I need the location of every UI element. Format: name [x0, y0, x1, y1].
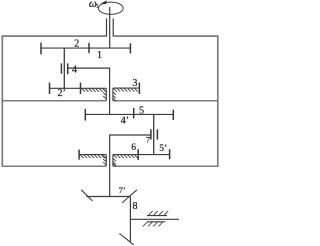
carrier 7 right tick	[156, 129, 158, 139]
bevel gear 7' left cone stroke	[81, 190, 92, 201]
input shaft bearing sleeve left	[106, 18, 108, 36]
input shaft bearing sleeve right	[112, 18, 114, 36]
svg-text:4: 4	[72, 64, 77, 75]
gear 2' left tick	[49, 83, 51, 94]
gear line 4'-5	[85, 113, 173, 115]
shaft 5	[153, 114, 155, 154]
fixed ring gear 6 left end tick	[78, 150, 80, 160]
lower guide support	[143, 222, 165, 227]
mesh tick gears 4'-5	[133, 108, 135, 119]
fixed ring gear 6 right hatching	[113, 155, 138, 167]
ring gear 3 end tick	[138, 83, 140, 94]
mesh tick gears 2'-3	[80, 83, 82, 94]
svg-text:8: 8	[133, 201, 138, 212]
fixed ring gear 3 right hatching	[113, 88, 138, 101]
output rod	[130, 218, 179, 220]
svg-text:6: 6	[131, 143, 136, 153]
shaft 8	[129, 197, 131, 242]
bevel gear 7' line	[86, 196, 130, 198]
svg-text:2’: 2’	[58, 88, 66, 99]
fixed ring gear 3 left hatching	[82, 89, 107, 100]
svg-text:3: 3	[132, 78, 137, 89]
svg-text:2: 2	[74, 39, 79, 50]
svg-text:4’: 4’	[121, 115, 129, 126]
shaft 2	[63, 48, 65, 88]
frame left edge	[1, 35, 3, 167]
carrier 7 arm	[110, 135, 151, 197]
mesh tick gears 1-2	[88, 43, 90, 53]
gear 2' line	[50, 87, 107, 89]
fixed ring gear 3 left inner edge	[105, 88, 107, 101]
frame middle wall	[2, 100, 218, 102]
svg-text:7’: 7’	[119, 185, 126, 195]
fixed ring gear 3 right line	[113, 87, 139, 89]
frame bottom edge	[2, 165, 218, 167]
svg-text:1: 1	[97, 50, 102, 61]
gear 1 right tick	[129, 43, 131, 53]
mesh tick gears 6-5'	[137, 149, 139, 160]
carrier 4 left tick	[60, 63, 62, 73]
fixed ring gear 6 left inner edge	[105, 155, 107, 167]
gear 5' right tick	[169, 149, 171, 159]
svg-text:7: 7	[146, 134, 150, 144]
gear 5 right tick	[172, 110, 174, 120]
upper guide support	[147, 211, 168, 216]
input shaft 1	[109, 7, 111, 48]
carrier 4 right tick	[67, 63, 69, 74]
gear 2 left tick	[40, 43, 42, 55]
fixed ring gear 3 right inner edge	[112, 88, 114, 101]
fixed ring gear 6 right inner edge	[112, 155, 114, 167]
frame top edge	[2, 35, 218, 37]
fixed ring gear 6 left line	[79, 154, 106, 156]
svg-text:5’: 5’	[159, 144, 167, 154]
carrier 4 arm	[68, 68, 110, 114]
carrier 7 left tick	[150, 129, 152, 139]
gear line 1-2	[41, 47, 130, 49]
gear 5' line	[138, 154, 169, 156]
gear 4' left tick	[84, 109, 86, 121]
fixed ring gear 6 right line	[113, 154, 138, 156]
rotation arrow ellipse	[98, 2, 123, 14]
frame right edge	[217, 35, 219, 167]
fixed ring gear 6 left hatching	[80, 155, 106, 166]
svg-text:5: 5	[139, 106, 144, 117]
bevel cone stroke at shaft 8 end	[119, 234, 133, 245]
bevel mesh 7'-8 cone stroke	[122, 190, 137, 203]
